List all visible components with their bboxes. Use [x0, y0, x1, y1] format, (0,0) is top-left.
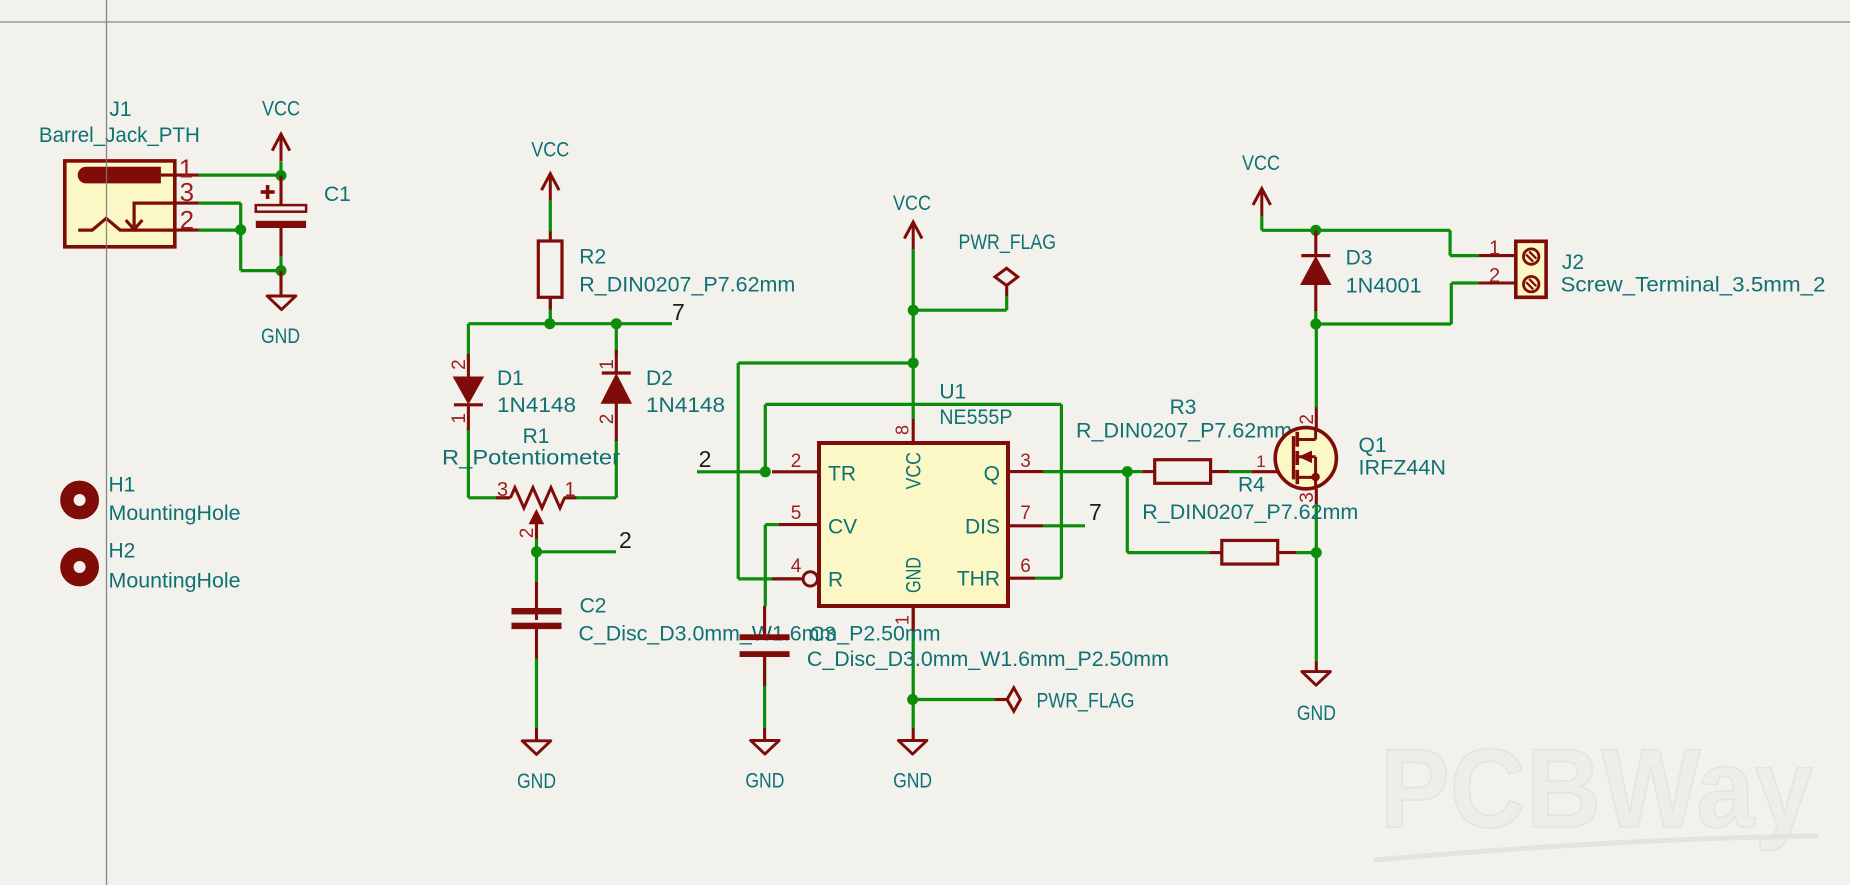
svg-text:3: 3 — [180, 177, 194, 207]
svg-text:GND: GND — [903, 557, 926, 593]
svg-text:1N4148: 1N4148 — [646, 394, 725, 417]
svg-text:IRFZ44N: IRFZ44N — [1359, 457, 1447, 480]
svg-text:5: 5 — [791, 503, 802, 524]
svg-text:3: 3 — [1020, 451, 1031, 472]
svg-text:7: 7 — [672, 299, 685, 325]
svg-text:U1: U1 — [939, 380, 966, 403]
svg-text:GND: GND — [517, 770, 556, 793]
svg-text:D1: D1 — [497, 367, 524, 390]
svg-text:3: 3 — [1297, 492, 1318, 503]
svg-text:Q1: Q1 — [1359, 434, 1387, 457]
svg-text:R3: R3 — [1170, 396, 1197, 419]
svg-text:1: 1 — [893, 615, 913, 625]
svg-text:7: 7 — [1020, 503, 1031, 524]
svg-text:C3: C3 — [809, 623, 836, 646]
svg-text:C2: C2 — [580, 595, 607, 618]
svg-text:Screw_Terminal_3.5mm_2: Screw_Terminal_3.5mm_2 — [1561, 274, 1826, 297]
svg-text:2: 2 — [180, 205, 194, 235]
svg-text:VCC: VCC — [1242, 152, 1280, 175]
svg-text:1: 1 — [1256, 452, 1265, 471]
svg-text:R_DIN0207_P7.62mm: R_DIN0207_P7.62mm — [1142, 501, 1358, 524]
svg-text:PWR_FLAG: PWR_FLAG — [1037, 690, 1135, 713]
svg-text:GND: GND — [1297, 702, 1336, 725]
svg-text:PCBWay: PCBWay — [1380, 726, 1813, 851]
svg-text:DIS: DIS — [965, 516, 1000, 539]
svg-text:R1: R1 — [523, 425, 550, 448]
svg-text:D2: D2 — [646, 367, 673, 390]
svg-text:VCC: VCC — [893, 192, 931, 215]
svg-text:C1: C1 — [324, 183, 351, 206]
svg-text:6: 6 — [1020, 556, 1031, 577]
svg-text:1: 1 — [449, 413, 470, 424]
svg-text:TR: TR — [828, 463, 856, 486]
svg-text:R4: R4 — [1238, 474, 1265, 497]
svg-text:GND: GND — [893, 770, 932, 793]
svg-text:Barrel_Jack_PTH: Barrel_Jack_PTH — [39, 124, 200, 147]
svg-text:J1: J1 — [109, 98, 131, 121]
svg-text:R: R — [828, 569, 843, 592]
svg-text:VCC: VCC — [903, 452, 926, 490]
svg-text:3: 3 — [497, 479, 508, 501]
svg-text:2: 2 — [1297, 414, 1318, 425]
svg-text:2: 2 — [619, 527, 632, 553]
svg-text:2: 2 — [699, 446, 712, 472]
svg-text:1N4148: 1N4148 — [497, 394, 576, 417]
svg-text:2: 2 — [517, 528, 538, 539]
svg-text:R_DIN0207_P7.62mm: R_DIN0207_P7.62mm — [1076, 420, 1292, 443]
svg-text:VCC: VCC — [531, 139, 569, 162]
svg-text:7: 7 — [1089, 499, 1102, 525]
svg-text:GND: GND — [261, 325, 300, 348]
svg-text:MountingHole: MountingHole — [109, 570, 241, 593]
svg-text:Q: Q — [984, 463, 1000, 486]
svg-text:THR: THR — [957, 568, 1000, 591]
svg-text:2: 2 — [597, 414, 618, 425]
svg-text:1N4001: 1N4001 — [1346, 275, 1422, 298]
svg-text:C_Disc_D3.0mm_W1.6mm_P2.50mm: C_Disc_D3.0mm_W1.6mm_P2.50mm — [807, 648, 1169, 671]
svg-text:1: 1 — [1489, 237, 1500, 259]
svg-text:2: 2 — [449, 359, 470, 370]
svg-text:H2: H2 — [109, 540, 136, 563]
svg-text:R_Potentiometer: R_Potentiometer — [442, 447, 620, 470]
svg-text:R2: R2 — [579, 245, 606, 268]
svg-text:VCC: VCC — [262, 98, 300, 121]
svg-text:C_Disc_D3.0mm_W1.6mm_P2.50mm: C_Disc_D3.0mm_W1.6mm_P2.50mm — [579, 623, 941, 646]
svg-text:1: 1 — [597, 359, 618, 370]
svg-text:MountingHole: MountingHole — [109, 502, 241, 525]
svg-text:J2: J2 — [1562, 251, 1584, 274]
svg-text:PWR_FLAG: PWR_FLAG — [959, 231, 1057, 254]
svg-text:R_DIN0207_P7.62mm: R_DIN0207_P7.62mm — [579, 274, 795, 297]
svg-text:H1: H1 — [109, 474, 136, 497]
svg-text:4: 4 — [791, 556, 802, 577]
svg-text:2: 2 — [1489, 265, 1500, 287]
svg-text:NE555P: NE555P — [939, 406, 1012, 429]
svg-text:8: 8 — [893, 425, 913, 435]
svg-text:GND: GND — [745, 770, 784, 793]
svg-text:2: 2 — [791, 451, 802, 472]
svg-text:D3: D3 — [1346, 246, 1373, 269]
svg-text:1: 1 — [564, 479, 575, 501]
svg-text:CV: CV — [828, 516, 857, 539]
